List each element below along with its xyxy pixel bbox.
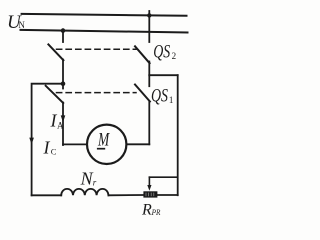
resistor RPR body	[143, 191, 157, 197]
svg-text:N: N	[18, 20, 25, 30]
switch QS1 right pole stub	[148, 75, 150, 86]
arrow IC current	[29, 138, 34, 145]
switch QS2 right pole blade	[135, 46, 150, 63]
svg-text:2: 2	[172, 51, 177, 61]
switch QS1 left pole blade	[46, 86, 64, 103]
wire: left branch stub from L2	[62, 31, 64, 43]
wire: IA branch down	[62, 103, 64, 146]
svg-text:QS: QS	[153, 42, 170, 63]
inductor Nr coil	[61, 189, 108, 195]
wire: right branch top stub	[148, 11, 150, 42]
supply line L2	[21, 30, 188, 33]
svg-text:I: I	[43, 138, 51, 158]
wire: motor right	[127, 143, 149, 145]
node: L2 / left branch junction	[61, 28, 66, 33]
motor M circle	[87, 125, 126, 164]
node: left branch / IC jog junction	[61, 81, 66, 86]
supply line L1	[22, 14, 187, 16]
switch QS1 right pole blade	[135, 85, 150, 102]
arrow IA current	[61, 115, 66, 122]
svg-text:N: N	[80, 168, 94, 188]
svg-text:QS: QS	[151, 85, 168, 106]
svg-text:R: R	[141, 201, 152, 218]
svg-text:M: M	[97, 130, 110, 151]
rheostat wiper stem	[148, 177, 150, 186]
wire: between QS2 blade and tap right	[148, 62, 150, 76]
node: L1 / right branch junction	[147, 13, 151, 17]
switch QS2 left pole blade	[48, 44, 63, 60]
arrow rheostat wiper	[147, 185, 151, 191]
svg-text:1: 1	[169, 95, 174, 105]
wire: to motor left	[63, 143, 87, 145]
wire: right rail down	[177, 75, 179, 195]
wire: right branch up to QS1	[148, 102, 150, 145]
wire: bottom left	[32, 194, 62, 196]
wire: resistor to right rail	[158, 194, 178, 196]
svg-text:A: A	[57, 121, 64, 131]
svg-text:C: C	[51, 147, 57, 157]
wire: jog to IC branch	[32, 84, 63, 196]
svg-text:PR: PR	[151, 207, 161, 217]
svg-text:r: r	[93, 178, 97, 188]
switch QS1 left pole stub	[62, 84, 64, 89]
motor underline	[97, 148, 105, 150]
wire: tap to right rail	[149, 74, 177, 76]
wire: between switches left	[62, 60, 64, 85]
linkage dashed line QS1	[57, 92, 137, 94]
wire: coil to resistor	[108, 194, 142, 196]
linkage dashed line QS2	[57, 48, 137, 50]
wire: wiper tap to right rail	[149, 176, 177, 178]
